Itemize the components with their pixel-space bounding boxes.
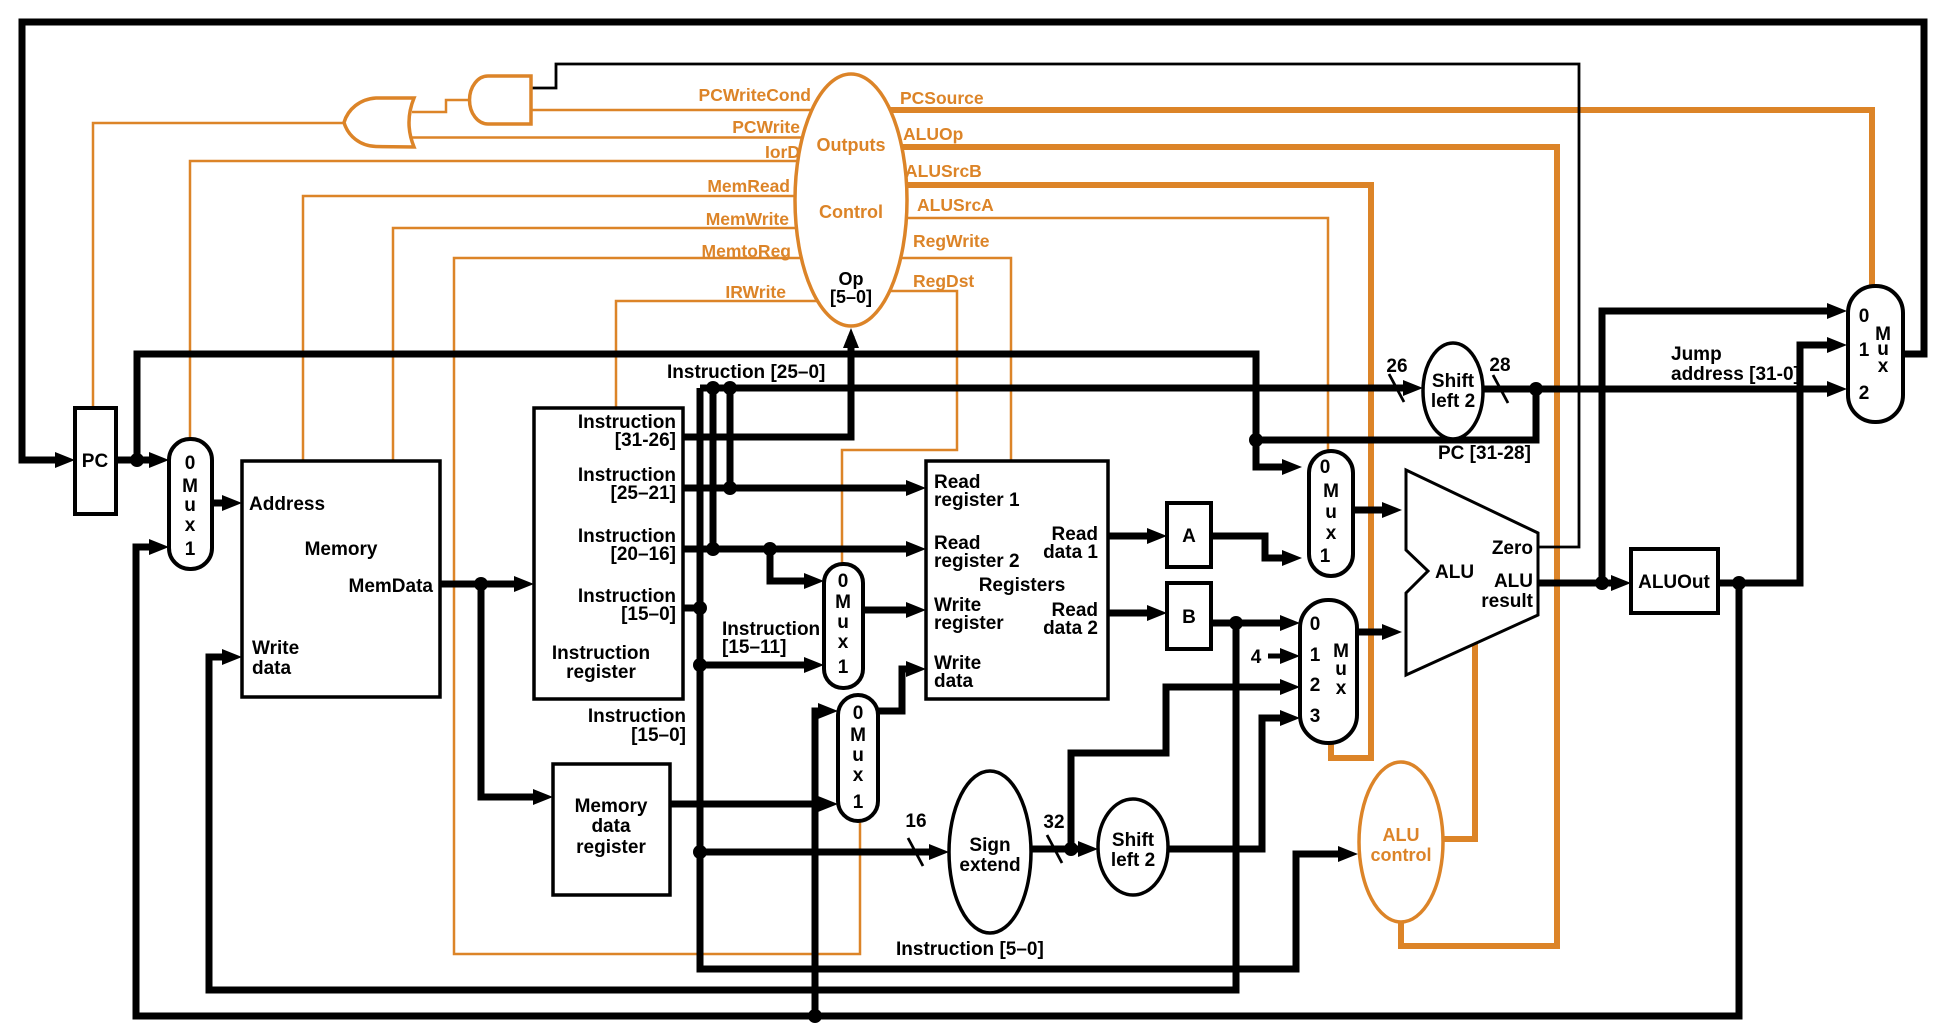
wire IorD mux output to Memory Address xyxy=(212,500,231,507)
arrow into Memory Address xyxy=(222,495,242,511)
node sign extend output xyxy=(1064,842,1078,856)
wire AND gate output to OR gate input xyxy=(412,100,470,112)
arrow into ALUOut xyxy=(1611,575,1631,591)
arrow into ALUSrcB mux input 1 xyxy=(1280,648,1300,664)
svg-text:MemWrite: MemWrite xyxy=(706,209,790,229)
gate AND (left-pointing, orange) xyxy=(470,76,531,124)
svg-text:data: data xyxy=(252,658,292,679)
arrow into ALUSrcB mux input 2 xyxy=(1280,679,1300,695)
svg-text:0: 0 xyxy=(185,453,196,474)
instruction register xyxy=(534,408,683,699)
arrow into ALUSrcB mux input 3 xyxy=(1280,710,1300,726)
node Instruction[20-16] tap 2 xyxy=(763,542,777,556)
svg-text:28: 28 xyxy=(1489,355,1510,376)
arrow into ALU lower input xyxy=(1382,624,1402,640)
wire PCSource (Control to PC source mux select) xyxy=(851,110,1872,286)
wire ALUOp (Control to ALU control) xyxy=(851,147,1557,946)
wire MemData to Instruction register xyxy=(440,581,523,588)
svg-text:x: x xyxy=(853,765,864,786)
arrow into MemtoReg mux input 0 xyxy=(818,703,838,719)
wire Instruction[25-0] tap riser at x=713 xyxy=(710,388,717,549)
node Instruction[15-11] tap xyxy=(693,658,707,672)
svg-text:x: x xyxy=(185,515,196,536)
svg-text:Address: Address xyxy=(249,494,325,515)
arrow into Read register 1 xyxy=(906,480,926,496)
svg-text:PCWriteCond: PCWriteCond xyxy=(699,85,811,105)
wire Instruction[15-0] to Sign extend xyxy=(700,849,938,856)
arrow into PC source mux input 1 xyxy=(1827,337,1847,353)
svg-text:Zero: Zero xyxy=(1492,538,1533,559)
wire MemWrite (Control to Memory) xyxy=(393,228,851,461)
wire MemtoReg mux output to Write data xyxy=(878,669,915,711)
node ALU result branch xyxy=(1595,576,1609,590)
wire ALUOut return tap to MemtoReg mux input 0 xyxy=(815,711,827,1016)
node sign extend input tap xyxy=(693,845,707,859)
arrow into Sign extend xyxy=(929,844,949,860)
svg-text:M: M xyxy=(835,592,851,613)
svg-text:ALUOut: ALUOut xyxy=(1638,572,1710,593)
svg-text:0: 0 xyxy=(1859,306,1870,327)
svg-text:1: 1 xyxy=(1320,546,1331,567)
wire Instruction[31-26] to Control Op xyxy=(683,336,851,437)
svg-text:0: 0 xyxy=(838,571,849,592)
svg-text:left 2: left 2 xyxy=(1431,391,1475,412)
svg-text:u: u xyxy=(184,495,196,516)
wire Instruction[15-0] vertical bus and Instruction[5-0] to ALU control xyxy=(700,388,1347,969)
ellipse Shift left 2 (lower) xyxy=(1098,799,1168,895)
mux PC source xyxy=(1848,286,1903,422)
svg-text:[5–0]: [5–0] xyxy=(830,287,872,307)
arrow into Write data (Registers) xyxy=(906,661,926,677)
svg-text:16: 16 xyxy=(905,811,926,832)
arrow into IorD mux input 1 xyxy=(149,539,169,555)
svg-text:[15–11]: [15–11] xyxy=(722,637,786,658)
arrow into ALUSrcB mux input 0 xyxy=(1280,615,1300,631)
svg-text:1: 1 xyxy=(185,539,196,560)
wire Instruction[25-0] tap riser at x=730 xyxy=(727,388,734,488)
wire A output to ALUSrcA mux input 1 xyxy=(1211,536,1291,558)
svg-text:ALU: ALU xyxy=(1435,562,1474,583)
arrow into ALUSrcA mux input 0 xyxy=(1282,459,1302,475)
wire Sign extend output to Shift left 2 xyxy=(1031,846,1087,853)
wire PC[31-28] to jump address junction xyxy=(1256,389,1536,440)
svg-text:data: data xyxy=(934,671,974,692)
arrow into A xyxy=(1147,528,1167,544)
wire OR gate output to PC write enable xyxy=(93,123,344,408)
svg-text:ALU: ALU xyxy=(1383,825,1420,845)
svg-text:32: 32 xyxy=(1043,812,1064,833)
svg-text:x: x xyxy=(1326,523,1337,544)
svg-text:x: x xyxy=(1336,678,1347,699)
arrow into B xyxy=(1147,605,1167,621)
svg-text:Shift: Shift xyxy=(1432,371,1475,392)
svg-text:2: 2 xyxy=(1310,675,1321,696)
arrow into Memory data register xyxy=(533,789,553,805)
wire B output to ALUSrcB mux input 0 xyxy=(1211,620,1289,627)
svg-text:PC: PC xyxy=(82,451,109,472)
wire MemData tap to Memory data register xyxy=(481,584,542,797)
mux IorD xyxy=(169,439,212,569)
slash 32 on sign extend output xyxy=(1047,835,1062,863)
svg-text:IRWrite: IRWrite xyxy=(725,282,786,302)
register PC xyxy=(75,408,116,514)
svg-text:Memory: Memory xyxy=(575,796,648,817)
ellipse Control unit (orange) xyxy=(795,74,907,326)
svg-text:1: 1 xyxy=(1859,340,1870,361)
svg-text:register: register xyxy=(566,662,636,683)
svg-text:Jump: Jump xyxy=(1671,344,1722,365)
arrow into Write register xyxy=(906,602,926,618)
wire Zero to AND gate xyxy=(532,64,1579,547)
svg-text:Outputs: Outputs xyxy=(817,135,886,155)
gate OR (left-pointing, orange) xyxy=(344,98,414,147)
arrow into PC xyxy=(55,452,75,468)
wire Instruction[20-16] to Read register 2 xyxy=(683,546,915,553)
wire jump address to PC source mux input 2 xyxy=(1482,386,1836,393)
svg-text:0: 0 xyxy=(853,703,864,724)
svg-text:left 2: left 2 xyxy=(1111,850,1155,871)
node B output xyxy=(1229,616,1243,630)
svg-text:[31-26]: [31-26] xyxy=(615,430,676,451)
node ALUOut return tap xyxy=(808,1009,822,1023)
svg-text:RegWrite: RegWrite xyxy=(913,231,990,251)
svg-text:[25–21]: [25–21] xyxy=(611,483,677,504)
svg-text:ALUSrcA: ALUSrcA xyxy=(917,195,994,215)
memory unit xyxy=(242,461,440,697)
slash 16 on sign extend input xyxy=(908,838,923,866)
wire ALU result riser to PC source mux input 0 xyxy=(1602,311,1836,583)
wire PC output to IorD mux input 0 xyxy=(116,457,158,464)
register A xyxy=(1167,503,1211,567)
slash 28 on jump shift output xyxy=(1493,375,1508,403)
node Instruction[25-0] tap 2 xyxy=(723,381,737,395)
svg-text:IorD: IorD xyxy=(765,142,800,162)
svg-text:M: M xyxy=(182,476,198,497)
wire Instruction[15-11] to RegDst mux input 1 xyxy=(700,662,813,669)
wire Memory data register output to MemtoReg mux input 1 xyxy=(670,801,827,808)
mux MemtoReg xyxy=(838,695,878,821)
svg-text:M: M xyxy=(1323,481,1339,502)
wire Read data 2 to B xyxy=(1108,610,1156,617)
wire ALUSrcB mux output to ALU xyxy=(1357,629,1391,636)
arrow into Shift left 2 (upper) xyxy=(1403,380,1423,396)
arrow into ALU upper input xyxy=(1382,502,1402,518)
arrow into PC source mux input 2 xyxy=(1827,381,1847,397)
arrow into MemtoReg mux input 1 xyxy=(818,796,838,812)
wire B to Memory Write data xyxy=(209,623,1236,990)
arrow into IorD mux input 0 xyxy=(149,452,169,468)
wire MemtoReg (Control to MemtoReg mux select) xyxy=(454,258,860,954)
svg-text:ALUOp: ALUOp xyxy=(903,124,963,144)
register ALUOut xyxy=(1631,549,1718,613)
svg-text:u: u xyxy=(1335,659,1347,680)
svg-text:u: u xyxy=(1325,502,1337,523)
svg-text:0: 0 xyxy=(1310,614,1321,635)
wire ALUOut return to IorD mux input 1 xyxy=(136,547,1739,1016)
wire ALUOut output to PC source mux input 1 xyxy=(1718,345,1836,583)
svg-text:extend: extend xyxy=(959,855,1020,876)
svg-text:register: register xyxy=(934,613,1004,634)
wire ALUSrcB (Control to ALUSrcB mux select) xyxy=(851,185,1371,758)
svg-text:register: register xyxy=(576,837,646,858)
svg-text:A: A xyxy=(1182,526,1196,547)
wire Instruction[20-16] tap to RegDst mux input 0 xyxy=(770,549,813,581)
svg-text:Instruction: Instruction xyxy=(588,706,686,727)
svg-text:register 2: register 2 xyxy=(934,551,1020,572)
svg-text:[15–0]: [15–0] xyxy=(621,604,676,625)
svg-text:1: 1 xyxy=(853,792,864,813)
mux ALUSrcB xyxy=(1300,600,1357,743)
svg-text:1: 1 xyxy=(1310,645,1321,666)
wire constant 4 to ALUSrcB mux input 1 xyxy=(1268,654,1289,659)
mux RegDst xyxy=(824,564,863,688)
arrow into ALUSrcA mux input 1 xyxy=(1282,550,1302,566)
ALU xyxy=(1406,470,1538,675)
svg-text:3: 3 xyxy=(1310,706,1321,727)
svg-text:Instruction: Instruction xyxy=(552,643,650,664)
memory data register xyxy=(553,764,670,895)
arrow into PC source mux input 0 xyxy=(1827,303,1847,319)
svg-text:PCWrite: PCWrite xyxy=(732,117,800,137)
svg-text:0: 0 xyxy=(1320,457,1331,478)
svg-text:u: u xyxy=(837,612,849,633)
svg-text:MemRead: MemRead xyxy=(707,176,790,196)
wire PC output riser and PC bus to ALUSrcA mux input 0 xyxy=(137,354,1291,467)
svg-text:u: u xyxy=(852,745,864,766)
node PC[31-28] tap xyxy=(1249,433,1263,447)
svg-text:register 1: register 1 xyxy=(934,490,1020,511)
wire PC source mux output loop back to PC xyxy=(22,22,1924,460)
node jump address junction xyxy=(1529,382,1543,396)
svg-text:address [31-0]: address [31-0] xyxy=(1671,364,1800,385)
svg-text:ALUSrcB: ALUSrcB xyxy=(905,161,982,181)
svg-text:[15–0]: [15–0] xyxy=(631,725,686,746)
svg-text:Write: Write xyxy=(252,638,299,659)
svg-text:4: 4 xyxy=(1251,647,1262,668)
ellipse ALU control (orange) xyxy=(1359,762,1443,922)
svg-text:MemData: MemData xyxy=(349,576,434,597)
wire PCWriteCond (Control to AND gate) xyxy=(531,109,851,112)
registers unit xyxy=(926,461,1108,699)
wire MemRead (Control to Memory) xyxy=(303,196,851,461)
svg-text:Op: Op xyxy=(839,269,864,289)
svg-text:MemtoReg: MemtoReg xyxy=(702,241,791,261)
svg-text:M: M xyxy=(850,725,866,746)
svg-text:Shift: Shift xyxy=(1112,830,1155,851)
arrow into Read register 2 xyxy=(906,541,926,557)
svg-text:B: B xyxy=(1182,607,1196,628)
svg-text:1: 1 xyxy=(838,657,849,678)
svg-text:PC [31-28]: PC [31-28] xyxy=(1438,443,1531,464)
node Instruction[20-16] tap 1 xyxy=(706,542,720,556)
svg-text:Instruction [5–0]: Instruction [5–0] xyxy=(896,939,1044,960)
arrow into Control Op (up) xyxy=(843,328,859,348)
wire Sign extend output riser to ALUSrcB mux input 2 xyxy=(1071,687,1289,849)
wire ALU control output to ALU xyxy=(1442,644,1475,839)
node Instruction[25-21] tap xyxy=(723,481,737,495)
svg-text:Instruction [25–0]: Instruction [25–0] xyxy=(667,362,825,383)
wire IorD (Control to IorD mux select) xyxy=(190,161,851,439)
svg-text:Memory: Memory xyxy=(305,539,378,560)
svg-text:Registers: Registers xyxy=(979,575,1066,596)
wire RegWrite (Control to Registers) xyxy=(851,258,1011,462)
svg-text:result: result xyxy=(1481,591,1533,612)
arrow into RegDst mux input 1 xyxy=(804,657,824,673)
slash 26 on Instruction[25-0] xyxy=(1389,374,1404,402)
wire Shift left 2 output to ALUSrcB mux input 3 xyxy=(1168,718,1289,849)
node ALUOut branch xyxy=(1732,576,1746,590)
svg-text:x: x xyxy=(838,632,849,653)
wire RegDst (Control to RegDst mux select) xyxy=(842,291,957,564)
node Instruction[15-0] tap xyxy=(693,601,707,615)
ellipse Sign extend xyxy=(949,771,1031,933)
svg-text:ALU: ALU xyxy=(1494,571,1533,592)
svg-text:Control: Control xyxy=(819,202,883,222)
arrow into RegDst mux input 0 xyxy=(804,573,824,589)
svg-text:data 1: data 1 xyxy=(1043,542,1098,563)
wire IRWrite (Control to Instruction register) xyxy=(616,301,851,408)
node MemData branch xyxy=(474,577,488,591)
mux ALUSrcA xyxy=(1309,451,1353,576)
svg-text:[20–16]: [20–16] xyxy=(611,544,677,565)
arrow into Memory Write data xyxy=(222,649,242,665)
svg-text:data: data xyxy=(591,816,631,837)
svg-text:Sign: Sign xyxy=(969,835,1010,856)
node Instruction[25-0] tap 1 xyxy=(706,381,720,395)
wire Instruction[25-21] to Read register 1 xyxy=(683,485,915,492)
arrow into Instruction register xyxy=(514,576,534,592)
svg-text:x: x xyxy=(1878,356,1889,377)
node PC output xyxy=(130,453,144,467)
wire RegDst mux output to Write register xyxy=(863,607,915,614)
wire Instruction[15-0] output stub xyxy=(683,605,703,612)
arrow into Shift left 2 (lower) xyxy=(1078,841,1098,857)
wire Instruction[25-0] bus to Shift left 2 xyxy=(700,385,1412,392)
svg-text:PCSource: PCSource xyxy=(900,88,984,108)
svg-text:RegDst: RegDst xyxy=(913,271,974,291)
wire PCWrite (Control to OR gate) xyxy=(412,136,851,139)
wire ALUSrcA mux output to ALU xyxy=(1353,507,1391,514)
arrow into ALU control xyxy=(1338,846,1358,862)
svg-text:data 2: data 2 xyxy=(1043,618,1098,639)
wire ALU result to ALUOut xyxy=(1538,580,1620,587)
svg-text:26: 26 xyxy=(1386,356,1407,377)
svg-text:2: 2 xyxy=(1859,383,1870,404)
register B xyxy=(1167,583,1211,649)
svg-text:control: control xyxy=(1371,845,1432,865)
wire ALUSrcA (Control to ALUSrcA mux select) xyxy=(851,218,1328,451)
wire Read data 1 to A xyxy=(1108,533,1156,540)
ellipse Shift left 2 (upper) xyxy=(1423,343,1483,439)
